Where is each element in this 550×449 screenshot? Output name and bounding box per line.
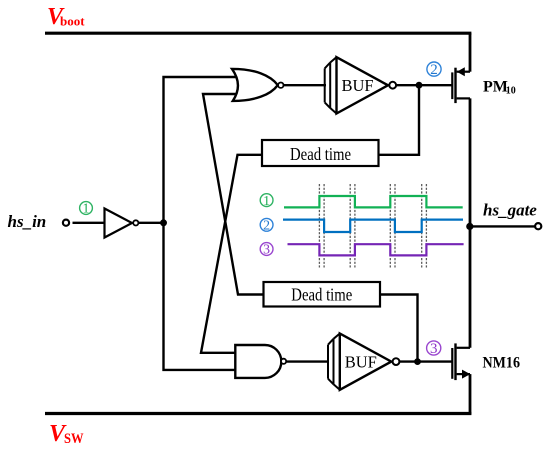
svg-text:PM: PM (483, 79, 508, 96)
svg-text:3: 3 (430, 341, 438, 357)
svg-text:hs_gate: hs_gate (483, 201, 537, 220)
svg-text:NM16: NM16 (483, 354, 521, 371)
svg-text:hs_in: hs_in (8, 212, 47, 231)
svg-text:3: 3 (263, 242, 270, 257)
svg-text:BUF: BUF (341, 76, 373, 95)
svg-text:2: 2 (263, 218, 270, 233)
svg-text:1: 1 (263, 193, 270, 208)
svg-text:Dead time: Dead time (291, 285, 352, 305)
svg-text:2: 2 (430, 62, 438, 78)
svg-text:Dead time: Dead time (290, 144, 351, 164)
svg-text:BUF: BUF (345, 352, 377, 371)
svg-text:SW: SW (64, 431, 84, 447)
svg-text:10: 10 (506, 86, 516, 97)
svg-text:1: 1 (83, 201, 90, 216)
svg-text:boot: boot (60, 14, 85, 29)
